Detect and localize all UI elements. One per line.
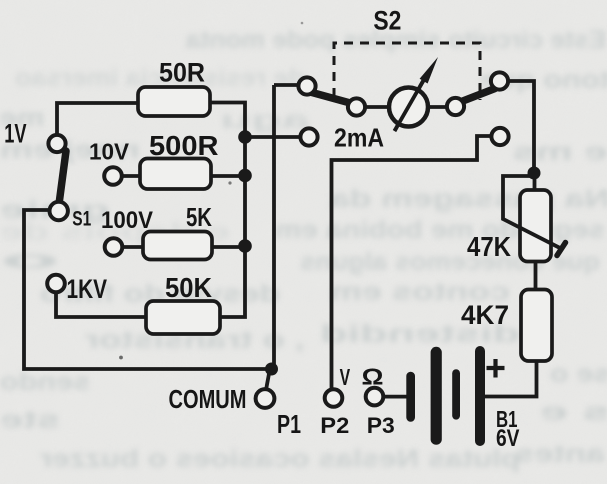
svg-text:P3: P3 — [367, 413, 395, 438]
svg-text:que conecemos alguns: que conecemos alguns — [300, 248, 600, 276]
svg-text:Ω: Ω — [362, 364, 384, 390]
svg-text:1V: 1V — [4, 119, 26, 149]
svg-text:P2: P2 — [320, 413, 349, 438]
svg-text:V: V — [340, 364, 351, 390]
svg-text:5K: 5K — [186, 202, 212, 232]
svg-text:50K: 50K — [165, 272, 212, 303]
svg-text:1KV: 1KV — [67, 274, 108, 304]
svg-text:10V: 10V — [89, 139, 130, 165]
svg-text:s e: s e — [540, 398, 607, 426]
svg-text:47K: 47K — [467, 231, 511, 262]
svg-text:se o: se o — [550, 360, 607, 388]
svg-text:ste: ste — [0, 406, 60, 434]
svg-text:Na passagem da: Na passagem da — [328, 185, 607, 213]
svg-text:50R: 50R — [159, 58, 205, 88]
svg-text:COMUM: COMUM — [169, 384, 247, 414]
svg-text:segundo me bobina em: segundo me bobina em — [275, 216, 605, 244]
svg-text:6V: 6V — [496, 425, 520, 452]
svg-text:plutas Neslas ocasioes o buzze: plutas Neslas ocasioes o buzzer — [40, 445, 520, 473]
svg-text:sendo: sendo — [0, 368, 90, 396]
svg-text:P1: P1 — [277, 409, 301, 439]
svg-text:2mA: 2mA — [334, 122, 384, 152]
svg-text:4K7: 4K7 — [461, 300, 509, 330]
svg-text:o: o — [0, 246, 60, 274]
svg-text:S2: S2 — [373, 6, 401, 36]
svg-text:100V: 100V — [101, 207, 153, 234]
svg-text:agu: agu — [220, 106, 310, 134]
svg-text:S1: S1 — [72, 208, 91, 231]
svg-text:e ms: e ms — [513, 138, 607, 166]
svg-text:500R: 500R — [149, 130, 219, 161]
svg-text:antes: antes — [515, 440, 605, 468]
